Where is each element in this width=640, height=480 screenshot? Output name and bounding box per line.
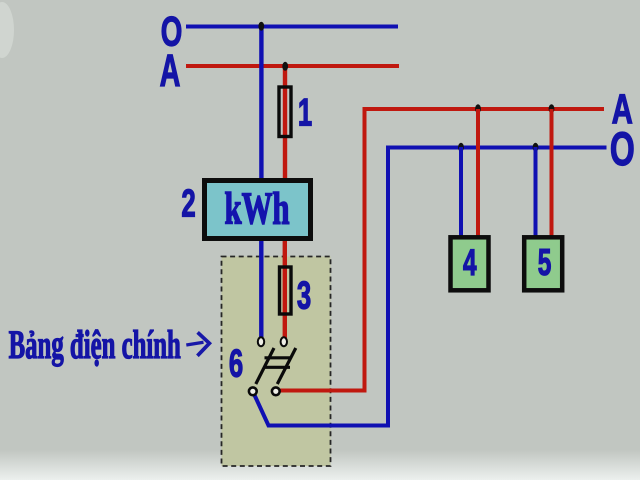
switch 6 crossbar lower bbox=[265, 366, 291, 369]
wire: red drop to receptacle 5 bbox=[550, 109, 554, 240]
node: junction dot on A output at box 5 bbox=[549, 104, 555, 113]
arrow pointer bbox=[186, 332, 209, 355]
node: junction dot on O output at box 5 bbox=[533, 143, 539, 152]
wire: blue drop from O line to kWh meter bbox=[259, 25, 263, 186]
fuse 3 bbox=[280, 267, 292, 314]
svg-text:A: A bbox=[160, 46, 181, 96]
switch 6 output terminal right bbox=[272, 387, 280, 395]
node: junction dot on A output at box 4 bbox=[475, 104, 481, 113]
svg-text:3: 3 bbox=[297, 274, 311, 318]
switch 6 crossbar upper bbox=[265, 356, 291, 359]
switch 6 input terminal left bbox=[258, 337, 264, 346]
switch 6 input terminal right bbox=[281, 337, 287, 346]
wire: O phase top horizontal (blue) bbox=[186, 25, 398, 29]
kWh meter U2 bbox=[205, 181, 311, 239]
wire: red drop to receptacle 4 bbox=[476, 109, 480, 240]
wire: A phase top horizontal (red) bbox=[186, 64, 399, 68]
wire: blue drop to receptacle 5 bbox=[534, 147, 538, 240]
node: junction dot on O line bbox=[258, 22, 264, 31]
wire: blue drop to receptacle 4 bbox=[459, 147, 463, 240]
switch 6 blade left bbox=[256, 348, 274, 384]
wire: blue below kWh meter to switch terminal bbox=[259, 235, 263, 338]
wire: O output (blue) from switch to receptacles bbox=[254, 148, 607, 426]
main board enclosure (Bang dien chinh dashed box) bbox=[222, 257, 331, 467]
wire: red below kWh meter through fuse 3 to switch terminal bbox=[283, 235, 287, 338]
svg-text:Bảng điện chính: Bảng điện chính bbox=[9, 323, 181, 367]
receptacle 5 bbox=[524, 237, 562, 290]
switch 6 output terminal left bbox=[249, 387, 257, 395]
wire: A output (red) from switch to receptacles bbox=[277, 109, 604, 391]
fuse 1 bbox=[279, 87, 291, 137]
wire: red drop from A line through fuse 1 to kWh meter bbox=[283, 64, 287, 185]
svg-text:6: 6 bbox=[229, 342, 243, 386]
node: junction dot on A line bbox=[282, 62, 288, 71]
svg-text:kWh: kWh bbox=[224, 184, 289, 235]
receptacle 4 bbox=[451, 237, 489, 290]
node: junction dot on O output at box 4 bbox=[458, 143, 464, 152]
switch 6 blade right bbox=[277, 348, 296, 384]
svg-text:4: 4 bbox=[463, 242, 477, 283]
svg-text:1: 1 bbox=[298, 91, 312, 135]
svg-text:5: 5 bbox=[538, 242, 552, 283]
svg-text:2: 2 bbox=[181, 182, 195, 226]
svg-text:O: O bbox=[610, 123, 635, 176]
